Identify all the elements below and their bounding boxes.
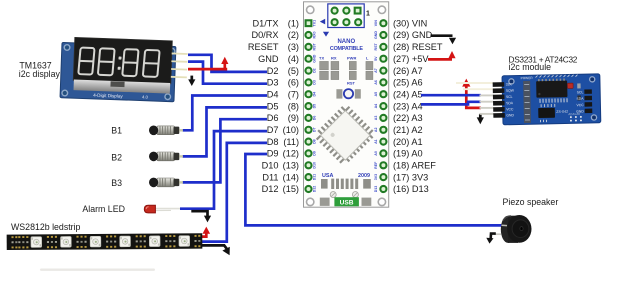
svg-text:SDA: SDA xyxy=(506,101,514,105)
svg-text:VCC: VCC xyxy=(576,103,584,107)
svg-text:D6: D6 xyxy=(313,116,317,121)
module pcb xyxy=(502,74,601,125)
wire A5 to SCL xyxy=(421,94,481,97)
right header block xyxy=(584,89,592,113)
pcb screw hole top-right xyxy=(169,48,175,54)
module hole top-right xyxy=(590,77,595,82)
wire button B3 to D6 xyxy=(183,119,268,182)
power LED red xyxy=(567,83,573,88)
svg-text:D11: D11 xyxy=(313,174,317,180)
colon xyxy=(118,57,122,70)
left pad column xyxy=(305,20,311,192)
SMD resistor/led cluster xyxy=(320,61,373,79)
svg-text:A5: A5 xyxy=(374,92,378,97)
svg-text:A2: A2 xyxy=(374,127,378,132)
seven segment digit 2 xyxy=(98,48,115,75)
svg-text:RX0: RX0 xyxy=(313,32,317,39)
svg-text:REF: REF xyxy=(374,161,378,169)
wire (29) GND black xyxy=(431,34,453,37)
ground arrow display xyxy=(190,76,193,81)
svg-text:(5): (5) xyxy=(288,66,299,76)
pcb screw hole bottom-right xyxy=(165,94,171,100)
strip shadow xyxy=(40,269,155,271)
svg-text:D8: D8 xyxy=(313,139,317,144)
svg-text:(12): (12) xyxy=(283,149,299,159)
MCU chip QFP rotated xyxy=(313,103,377,167)
svg-text:D3: D3 xyxy=(313,80,317,85)
black arrowhead down 29 xyxy=(449,38,456,45)
red +5V riser DS3231 xyxy=(466,86,481,108)
pushbutton B1 xyxy=(149,126,183,136)
alarm LED body xyxy=(144,205,155,213)
strip solder pads and components xyxy=(11,235,200,249)
reset button pads xyxy=(336,89,342,98)
seven segment digit 3 xyxy=(122,49,138,76)
svg-text:(17) 3V3: (17) 3V3 xyxy=(393,172,428,182)
ICSP header outline xyxy=(328,4,364,28)
svg-text:GND: GND xyxy=(258,54,279,64)
svg-text:(26) A7: (26) A7 xyxy=(393,66,423,76)
strip LED 4 xyxy=(120,236,131,247)
DS3231 pin leads xyxy=(456,83,494,114)
svg-text:D10: D10 xyxy=(313,162,317,169)
svg-text:(29) GND: (29) GND xyxy=(393,30,433,40)
right pin labels xyxy=(393,18,443,194)
svg-text:RST: RST xyxy=(313,43,317,51)
mounting hole bottom-left xyxy=(307,198,314,205)
piezo gnd arrow xyxy=(491,234,496,239)
svg-text:WS2812b ledstrip: WS2812b ledstrip xyxy=(11,222,81,232)
svg-text:1: 1 xyxy=(366,11,370,18)
ledstrip gnd arrowhead upper xyxy=(204,216,211,223)
svg-text:A0: A0 xyxy=(374,151,378,156)
svg-text:(28) RESET: (28) RESET xyxy=(393,42,443,52)
svg-text:(2): (2) xyxy=(288,30,299,40)
svg-text:(4): (4) xyxy=(288,54,299,64)
svg-text:D1/TX: D1/TX xyxy=(252,18,278,28)
right pad column xyxy=(380,20,386,192)
red arrowhead up ledstrip xyxy=(203,227,211,234)
svg-text:Piezo speaker: Piezo speaker xyxy=(503,197,559,207)
pin silk labels xyxy=(506,82,516,117)
DS3231 IC xyxy=(536,80,567,97)
ground arrowhead DS3231 xyxy=(477,117,484,124)
svg-text:USA: USA xyxy=(322,173,333,179)
svg-text:GND: GND xyxy=(374,31,378,39)
svg-text:(11): (11) xyxy=(283,137,299,147)
screw marks xyxy=(330,192,336,198)
svg-text:(18) AREF: (18) AREF xyxy=(393,161,436,171)
svg-text:(24) A5: (24) A5 xyxy=(393,89,423,99)
left pad silk labels xyxy=(313,20,317,192)
svg-text:TX1: TX1 xyxy=(313,20,317,27)
pcb screw hole top-left xyxy=(64,45,70,51)
svg-text:USB: USB xyxy=(340,200,354,207)
svg-text:RX: RX xyxy=(331,56,337,61)
svg-text:POWER: POWER xyxy=(521,76,534,80)
strip LED 1 xyxy=(31,237,42,248)
mounting hole bottom-right xyxy=(378,198,385,205)
svg-text:(6): (6) xyxy=(288,78,299,88)
svg-text:(21) A2: (21) A2 xyxy=(393,125,423,135)
red arrowhead up 27 xyxy=(448,51,455,58)
svg-text:D5: D5 xyxy=(267,101,279,111)
svg-text:(7): (7) xyxy=(288,89,299,99)
wire red riser xyxy=(223,63,226,69)
SMD labels TX RX PWR L xyxy=(319,56,369,61)
svg-text:(16) D13: (16) D13 xyxy=(393,184,429,194)
ledstrip 5V red arrow xyxy=(196,232,206,236)
right pin silk labels xyxy=(576,90,585,113)
svg-text:SQW: SQW xyxy=(506,89,515,93)
svg-text:D12: D12 xyxy=(313,186,317,193)
module hole top-left xyxy=(509,79,514,84)
right pad silk labels xyxy=(374,20,378,192)
ledstrip gnd hook lower xyxy=(200,245,227,248)
svg-text:GND: GND xyxy=(313,54,317,62)
svg-text:32K: 32K xyxy=(506,82,513,86)
blue triangle marker left xyxy=(320,19,325,25)
svg-text:D5: D5 xyxy=(313,104,317,109)
svg-text:COMPATIBLE: COMPATIBLE xyxy=(330,46,363,52)
wire display VCC red xyxy=(188,68,227,71)
wire button B2 to D5 xyxy=(183,107,268,156)
svg-text:(20) A1: (20) A1 xyxy=(393,137,423,147)
svg-text:RESET: RESET xyxy=(248,42,279,52)
metal frame strip xyxy=(74,80,171,94)
svg-text:D7: D7 xyxy=(313,127,317,132)
display pcb xyxy=(60,43,176,102)
svg-text:A7: A7 xyxy=(374,68,378,73)
svg-text:4.0: 4.0 xyxy=(142,94,149,99)
bottom silk marks xyxy=(540,120,546,123)
svg-text:A4: A4 xyxy=(374,104,378,109)
display black body xyxy=(73,37,172,83)
pushbutton B3 xyxy=(149,178,183,188)
svg-text:2009: 2009 xyxy=(358,173,370,179)
wire display CLK to D2 xyxy=(188,55,267,72)
seven segment digit 1 xyxy=(78,48,94,75)
ledstrip gnd arrowhead lower xyxy=(222,247,229,255)
svg-text:(30) VIN: (30) VIN xyxy=(393,18,427,28)
svg-text:D0/RX: D0/RX xyxy=(251,30,278,40)
WS2812b ledstrip xyxy=(7,233,203,250)
piezo speaker xyxy=(501,215,532,243)
ICSP pads xyxy=(332,8,362,26)
svg-text:(3): (3) xyxy=(288,42,299,52)
display pin wire stubs xyxy=(171,53,188,77)
svg-text:GND: GND xyxy=(506,113,514,117)
wire A4 to SDA xyxy=(421,102,481,105)
svg-text:(22) A3: (22) A3 xyxy=(393,113,423,123)
strip LED 3 xyxy=(90,236,101,247)
left pin name labels xyxy=(248,18,299,194)
svg-text:D13: D13 xyxy=(374,186,378,193)
svg-text:VCC: VCC xyxy=(506,107,514,111)
svg-text:D2: D2 xyxy=(313,68,317,73)
red arrowhead up DS3231 xyxy=(462,79,470,87)
TM1637 display module xyxy=(60,37,188,102)
svg-text:D7: D7 xyxy=(267,125,279,135)
svg-text:RST: RST xyxy=(347,81,356,86)
bottom connector pads xyxy=(321,179,371,189)
svg-text:NANO: NANO xyxy=(337,39,355,45)
svg-text:SCL: SCL xyxy=(577,90,584,94)
top silk dashes xyxy=(536,75,578,78)
Arduino Nano board U1 xyxy=(304,2,389,207)
svg-text:Alarm LED: Alarm LED xyxy=(82,204,125,214)
wire ledstrip data to D8 xyxy=(200,143,267,242)
svg-text:A3: A3 xyxy=(374,116,378,121)
nano board outline xyxy=(304,2,389,207)
AT24C32 IC xyxy=(538,108,555,118)
svg-text:(1): (1) xyxy=(288,18,299,28)
USB connector side pads xyxy=(320,198,330,206)
svg-text:A1: A1 xyxy=(374,139,378,144)
strip LED 6 xyxy=(179,236,190,247)
strip LED 2 xyxy=(61,237,72,248)
svg-text:RST: RST xyxy=(374,43,378,51)
IC pin rows below xyxy=(540,98,567,103)
svg-text:5V: 5V xyxy=(374,56,378,61)
svg-text:(19) A0: (19) A0 xyxy=(393,149,423,159)
svg-text:D12: D12 xyxy=(262,184,279,194)
piezo gnd lead xyxy=(494,233,501,235)
alarm LED leads xyxy=(154,208,180,210)
USB label xyxy=(334,197,359,206)
pcb screw hole bottom-left xyxy=(62,90,68,96)
svg-text:VIN: VIN xyxy=(374,20,378,26)
strip LED 5 xyxy=(149,236,160,247)
svg-text:D11: D11 xyxy=(262,172,278,182)
svg-text:D9: D9 xyxy=(267,149,279,159)
wire button B1 to D4 xyxy=(183,96,268,131)
svg-text:D8: D8 xyxy=(267,137,279,147)
svg-text:D4: D4 xyxy=(313,92,317,97)
red arrowhead up display xyxy=(221,57,228,64)
svg-text:(15): (15) xyxy=(283,184,299,194)
ledstrip gnd hook upper xyxy=(191,211,207,216)
svg-text:SCL: SCL xyxy=(506,95,513,99)
svg-text:(27) +5V: (27) +5V xyxy=(393,54,429,64)
svg-text:B3: B3 xyxy=(111,178,122,188)
DS3231 module board xyxy=(493,74,601,125)
seven segment digit 4 xyxy=(143,50,160,77)
svg-text:(8): (8) xyxy=(288,101,299,111)
ground arrowhead display xyxy=(188,79,195,86)
wire D9 to piezo xyxy=(245,154,501,225)
mounting hole top-right xyxy=(378,6,385,13)
svg-text:i2c module: i2c module xyxy=(509,62,552,72)
module hole bottom-right xyxy=(591,115,596,120)
metal frame notch xyxy=(110,81,124,87)
ground arrow DS3231 xyxy=(479,114,482,118)
wire display DIO to D3 xyxy=(188,62,267,84)
svg-text:D4: D4 xyxy=(267,89,279,99)
svg-text:(13): (13) xyxy=(283,161,299,171)
pushbutton B2 xyxy=(149,152,183,162)
wire (27) +5V red xyxy=(428,58,452,61)
svg-text:(14): (14) xyxy=(283,172,299,182)
svg-text:D10: D10 xyxy=(262,161,279,171)
svg-text:D6: D6 xyxy=(267,113,279,123)
blue triangle marker lower xyxy=(323,32,329,37)
svg-text:D2: D2 xyxy=(267,66,279,76)
svg-text:B1: B1 xyxy=(111,126,122,136)
wire alarm LED to D7 xyxy=(180,131,267,209)
svg-text:A6: A6 xyxy=(374,80,378,85)
svg-text:(9): (9) xyxy=(288,113,299,123)
header pin block xyxy=(493,82,505,118)
svg-text:PWR: PWR xyxy=(347,56,356,61)
svg-text:3V3: 3V3 xyxy=(374,174,378,180)
svg-text:TX: TX xyxy=(319,56,324,61)
svg-text:B2: B2 xyxy=(111,153,122,163)
smd bits xyxy=(577,83,581,88)
bottom-right dots xyxy=(570,116,582,122)
svg-text:D9: D9 xyxy=(313,151,317,156)
reset button xyxy=(344,89,353,98)
piezo gnd arrowhead xyxy=(486,238,493,244)
battery holder edge xyxy=(523,81,531,123)
svg-text:i2c display: i2c display xyxy=(19,69,61,79)
svg-text:SDA: SDA xyxy=(576,97,584,101)
svg-text:D3: D3 xyxy=(267,78,279,88)
svg-text:A2 A1 A0: A2 A1 A0 xyxy=(568,112,580,116)
svg-text:ZS-042: ZS-042 xyxy=(556,110,568,114)
mounting hole top-left xyxy=(307,6,314,13)
svg-text:(10): (10) xyxy=(283,125,299,135)
svg-text:(23) A4: (23) A4 xyxy=(393,101,423,111)
svg-text:(25) A6: (25) A6 xyxy=(393,78,423,88)
